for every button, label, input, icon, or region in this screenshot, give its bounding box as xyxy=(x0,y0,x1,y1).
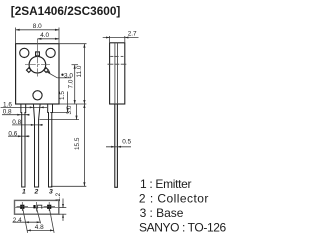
svg-text:3.0: 3.0 xyxy=(64,72,73,79)
svg-text:0.6: 0.6 xyxy=(8,130,17,137)
svg-text:3.0: 3.0 xyxy=(66,105,73,114)
svg-text:1.5: 1.5 xyxy=(59,91,66,100)
svg-text:15.5: 15.5 xyxy=(74,137,81,150)
svg-text:1 : Emitter: 1 : Emitter xyxy=(140,177,192,191)
svg-text:4.8: 4.8 xyxy=(35,224,44,231)
svg-text:8.0: 8.0 xyxy=(33,23,42,30)
svg-text:1.2: 1.2 xyxy=(55,192,62,201)
svg-text:2: 2 xyxy=(34,189,39,196)
svg-text:1: 1 xyxy=(22,189,26,196)
svg-text:1.6: 1.6 xyxy=(3,101,12,108)
svg-text:7.0: 7.0 xyxy=(67,79,74,88)
svg-text:0.8: 0.8 xyxy=(3,109,12,116)
svg-text:0.5: 0.5 xyxy=(122,138,131,145)
svg-text:11.0: 11.0 xyxy=(76,65,83,77)
svg-text:[2SA1406/2SC3600]: [2SA1406/2SC3600] xyxy=(11,4,121,18)
svg-text:2.7: 2.7 xyxy=(128,31,137,38)
svg-text:3: 3 xyxy=(49,189,53,196)
svg-text:2 : Collector: 2 : Collector xyxy=(139,192,209,206)
svg-text:3 : Base: 3 : Base xyxy=(140,206,184,220)
svg-text:SANYO : TO-126: SANYO : TO-126 xyxy=(139,221,227,235)
svg-text:4.0: 4.0 xyxy=(40,32,49,39)
svg-text:2.4: 2.4 xyxy=(13,217,22,224)
svg-text:0.8: 0.8 xyxy=(12,119,21,126)
